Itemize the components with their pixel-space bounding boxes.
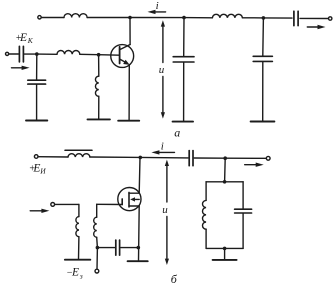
- wire node C7 to terminal below: [96, 248, 98, 270]
- ground C5: [251, 121, 275, 123]
- capacitor C8 tank plates: [235, 209, 252, 213]
- inductor L2 top-right: [212, 14, 242, 17]
- wire tank left lower: [205, 229, 207, 248]
- inductor L5 choke: [68, 154, 90, 157]
- wire terminal to C1: [9, 53, 18, 55]
- transformer T1 secondary coil wire top: [96, 204, 98, 217]
- inductor L5 core bar: [65, 149, 92, 151]
- wire node5 to base: [99, 54, 120, 57]
- node tank junction: [223, 156, 227, 160]
- svg-text:з: з: [79, 272, 83, 281]
- node tank bottom: [223, 247, 227, 251]
- inductor L4 branch wire upper: [98, 55, 100, 76]
- svg-text:E: E: [71, 267, 79, 279]
- transformer T1 secondary coil: [94, 217, 97, 237]
- capacitor C6 series output: [189, 151, 193, 166]
- node shunt cap C4 junction: [182, 16, 186, 20]
- wire tank bottom rail: [206, 247, 243, 249]
- terminal output circuit b: [266, 156, 270, 160]
- wire C2 to ground: [36, 85, 38, 121]
- label -E3: [66, 267, 83, 281]
- wire drain node to C6: [140, 156, 188, 159]
- wire tank top rail: [206, 181, 243, 183]
- capacitor C2 shunt branch wire upper: [36, 54, 38, 79]
- transformer T1 primary coil: [76, 217, 79, 237]
- label i circuit b: [161, 140, 164, 152]
- wire L3 to node5: [80, 53, 99, 55]
- wire node tank to output terminal: [225, 157, 266, 159]
- label +Ei: [29, 162, 47, 175]
- inductor L6 tank coil: [202, 200, 206, 229]
- wire L4 to ground: [98, 96, 100, 119]
- wire L5 to drain node: [90, 156, 140, 158]
- transistor Q1 emitter lead with arrow: [120, 59, 130, 65]
- terminal input gate circuit b: [51, 203, 55, 207]
- arrow u top (circuit b): [165, 160, 169, 202]
- wire L1 to collector node: [87, 17, 130, 19]
- capacitor C5 branch wire upper: [262, 18, 265, 56]
- ground C2: [26, 120, 47, 122]
- wire T1 primary to ground: [78, 237, 80, 260]
- capacitor C7 plates: [116, 240, 120, 255]
- wire C7 to source node: [121, 247, 139, 249]
- arrow i circuit b (leftward): [151, 150, 174, 154]
- label a (circuit a): [174, 125, 180, 139]
- inductor L4 vertical coil: [95, 76, 98, 96]
- node source capacitor junction: [137, 246, 141, 250]
- wire node2 to L2: [184, 17, 212, 19]
- ground emitter Q1: [118, 120, 139, 122]
- transistor Q2 drain stub: [129, 192, 139, 194]
- arrow u top (circuit a): [161, 20, 165, 62]
- arrow output current circuit b: [245, 163, 264, 167]
- capacitor C3 series output: [294, 11, 298, 25]
- svg-text:u: u: [162, 204, 168, 216]
- arrow u bottom (circuit a): [161, 77, 165, 119]
- wire emitter to ground: [128, 65, 130, 121]
- svg-text:И: И: [39, 167, 46, 176]
- node shunt cap C5 junction: [262, 16, 266, 20]
- ground L4: [88, 118, 110, 120]
- svg-text:К: К: [27, 36, 34, 45]
- wire node4 to L3: [37, 53, 57, 55]
- node tank top: [223, 180, 227, 184]
- transistor Q2 source stub: [129, 205, 139, 207]
- arrow input circuit b: [30, 209, 49, 213]
- wire node C7 to C7 plates: [97, 247, 114, 249]
- svg-text:а: а: [174, 125, 180, 139]
- wire source vertical to ground: [138, 206, 141, 261]
- capacitor C4 plates: [173, 57, 194, 62]
- transistor Q2 channel bar: [128, 192, 130, 207]
- svg-text:E: E: [19, 32, 27, 44]
- ground source Q2: [128, 260, 148, 262]
- transistor Q1 collector lead: [120, 18, 131, 50]
- node L4 junction base: [97, 53, 101, 57]
- wire tank node down: [224, 158, 227, 182]
- capacitor C4 branch wire upper: [183, 18, 185, 56]
- wire C3 to output terminal: [300, 17, 328, 19]
- capacitor C5 plates: [253, 56, 272, 61]
- arrow u bottom (circuit b): [165, 217, 169, 266]
- node collector junction: [128, 16, 132, 20]
- arrow i circuit a (leftward): [148, 10, 166, 14]
- wire L2 to node3: [242, 17, 263, 19]
- arrow input circuit a: [12, 66, 30, 70]
- wire C5 to ground: [262, 62, 264, 121]
- node C2 junction row2: [35, 52, 39, 56]
- transistor Q2 circle: [118, 188, 141, 211]
- label b (circuit b): [171, 272, 178, 286]
- ground C4: [173, 121, 193, 123]
- svg-text:i: i: [156, 0, 159, 12]
- wire top rail left (circuit a): [41, 17, 64, 19]
- wire drain vertical: [138, 158, 141, 194]
- label i circuit a: [156, 0, 159, 12]
- inductor L3 base feed: [57, 51, 80, 55]
- wire tank bottom to ground: [224, 248, 226, 259]
- wire C1 to node4: [24, 53, 36, 55]
- node C7 junction: [96, 246, 100, 250]
- transistor Q2 substrate arrow: [130, 197, 139, 201]
- terminal output circuit a: [329, 17, 332, 20]
- transistor Q1 base bar: [119, 47, 121, 64]
- label +Ek: [15, 32, 33, 45]
- ground tank: [213, 259, 237, 261]
- wire collector node to node 2: [130, 17, 184, 19]
- inductor L1 top-left: [64, 14, 87, 18]
- wire node3 to C3: [263, 17, 292, 19]
- svg-text:i: i: [161, 140, 164, 152]
- terminal input top-left circuit b: [34, 155, 38, 159]
- wire gate (T1 secondary top to gate bar): [97, 203, 123, 205]
- ground T1 primary: [65, 259, 90, 261]
- svg-text:б: б: [171, 272, 178, 286]
- wire C4 to ground: [183, 63, 185, 122]
- transistor Q2 gate bar: [121, 199, 123, 205]
- label u circuit b: [162, 204, 168, 216]
- wire tank right lower: [242, 214, 244, 249]
- node drain junction: [139, 156, 143, 160]
- svg-text:u: u: [159, 64, 165, 76]
- wire T1 secondary to node C7: [96, 237, 99, 247]
- terminal input top-left circuit a: [38, 16, 41, 19]
- wire terminal to L5: [38, 156, 68, 158]
- terminal input row2 circuit a: [6, 52, 9, 55]
- wire C6 to node tank: [194, 157, 225, 159]
- wire tank left upper: [205, 182, 207, 201]
- wire tank right upper: [242, 182, 244, 209]
- capacitor C1 series input: [19, 46, 23, 62]
- label u circuit a: [159, 64, 165, 76]
- terminal bottom gate bias: [95, 269, 99, 273]
- wire terminal to T1 primary: [55, 204, 79, 216]
- transistor Q1 circle: [111, 45, 134, 68]
- arrow output current circuit a: [307, 25, 325, 29]
- capacitor C2 plates: [28, 80, 46, 84]
